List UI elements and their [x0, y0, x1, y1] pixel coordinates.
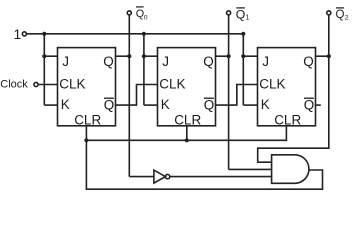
svg-text:Q: Q [204, 97, 215, 112]
inverter G2 bubble [165, 174, 169, 178]
terminal Qbar0 [127, 11, 131, 15]
node J2 [142, 54, 146, 58]
node rail-J2K2 [142, 32, 146, 36]
wire rail logic-1 [27, 33, 244, 35]
svg-text:Q: Q [303, 54, 314, 69]
flip-flop U2 box [158, 48, 216, 126]
terminal 1 (logic high input) [22, 32, 26, 36]
svg-text:Q: Q [104, 97, 115, 112]
svg-text:J: J [162, 54, 169, 69]
wire AND middle input horizontal [229, 168, 272, 170]
node CLR2 [185, 138, 189, 142]
svg-text:1: 1 [246, 15, 250, 22]
svg-text:J: J [262, 54, 269, 69]
wire Q2 vertical and feed to AND top input [258, 15, 329, 162]
wire J1 [44, 55, 57, 57]
svg-text:Q: Q [103, 54, 114, 69]
svg-text:1: 1 [14, 27, 22, 42]
node J3 [241, 54, 245, 58]
svg-text:J: J [62, 54, 69, 69]
wire CLR2 riser [186, 126, 188, 141]
wire J3/K3 feed vertical [242, 34, 244, 105]
terminal Clock [34, 82, 38, 86]
node J1 [42, 54, 46, 58]
svg-text:Q: Q [336, 9, 345, 21]
wire AND output return to CLR bus [86, 140, 322, 189]
svg-text:Q: Q [136, 8, 144, 20]
svg-text:CLK: CLK [159, 76, 185, 91]
inverter G2 output wire to AND bottom input [170, 176, 272, 178]
wire Q1 vertical (terminal to AND input) [228, 15, 230, 169]
node Q2 [327, 54, 331, 58]
wire K2 [144, 104, 158, 106]
wire J1/K1 feed vertical [43, 34, 45, 105]
wire Q1 output [116, 55, 130, 57]
wire Qbar2 to CLK3 jog [216, 85, 258, 106]
svg-text:K: K [61, 97, 70, 112]
wire CLR1 riser [85, 126, 87, 141]
svg-text:CLR: CLR [274, 113, 301, 128]
node CLR1 [84, 138, 88, 142]
svg-text:K: K [261, 97, 270, 112]
wire Qbar1 to CLK2 jog [116, 85, 158, 106]
wire K3 [243, 104, 257, 106]
svg-text:CLR: CLR [74, 113, 101, 128]
flip-flop U1 box [58, 48, 116, 126]
AND gate G1 body [272, 155, 309, 184]
node Q0 [127, 54, 131, 58]
node Q1 [227, 54, 231, 58]
svg-text:CLK: CLK [259, 76, 285, 91]
terminal Qbar2 [327, 11, 331, 15]
terminal Qbar1 [227, 11, 231, 15]
wire Q2 output [216, 55, 229, 57]
svg-text:CLR: CLR [174, 113, 201, 128]
node rail-J1K1 [42, 32, 46, 36]
inverter G2 triangle [154, 170, 166, 183]
svg-text:0: 0 [144, 15, 148, 22]
wire Qbar3 stub [316, 104, 321, 106]
wire J2 [144, 55, 158, 57]
wire CLR bus [86, 126, 286, 141]
wire J3 [243, 55, 257, 57]
wire J2/K2 feed vertical [143, 34, 145, 105]
wire K1 [44, 104, 57, 106]
svg-text:Clock: Clock [0, 79, 28, 91]
flip-flop U3 box [258, 48, 316, 126]
svg-text:2: 2 [345, 14, 349, 21]
wire Q0 vertical (terminal to inverter) [128, 15, 130, 177]
node rail-J3K3 [241, 32, 245, 36]
svg-text:Q: Q [304, 97, 315, 112]
inverter G2 input wire [129, 176, 154, 178]
svg-text:Q: Q [203, 54, 214, 69]
svg-text:K: K [161, 97, 170, 112]
svg-text:Q: Q [236, 8, 246, 22]
svg-text:CLK: CLK [59, 76, 85, 91]
wire CLK1 [38, 84, 57, 86]
wire Q3 output [316, 55, 329, 57]
